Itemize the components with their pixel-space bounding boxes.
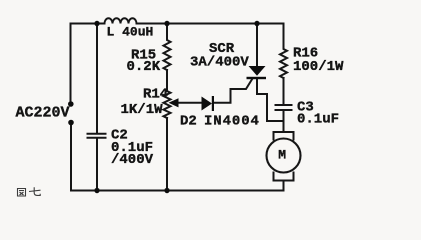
junction node top of SCR xyxy=(254,21,259,26)
capacitor C3 plates xyxy=(276,105,292,110)
rheostat R14 wiper arrow xyxy=(169,98,179,107)
resistor R16 100/1W with top corner xyxy=(280,24,287,79)
svg-text:/400V: /400V xyxy=(111,152,154,168)
junction node top of R15 xyxy=(164,21,169,26)
capacitor C2 branch lower wire xyxy=(96,139,98,191)
svg-text:D2: D2 xyxy=(180,114,197,130)
thyristor SCR triangle xyxy=(249,66,266,76)
wire R14 bottom to rail xyxy=(166,118,168,191)
capacitor C2 branch upper wire xyxy=(96,24,98,133)
node AC terminal upper xyxy=(68,101,74,107)
svg-text:IN4004: IN4004 xyxy=(204,114,260,130)
junction node bottom of C2 xyxy=(94,188,99,193)
wire motor to bottom rail xyxy=(283,181,285,191)
wire top rail left segment xyxy=(71,23,105,25)
svg-text:L 40uH: L 40uH xyxy=(107,24,154,39)
svg-text:M: M xyxy=(278,148,286,163)
wire top rail right segment xyxy=(137,23,284,25)
inductor L1 40uH xyxy=(105,18,137,23)
diode D2 cathode bar xyxy=(212,96,214,111)
wire D2 cathode to gate bend xyxy=(213,79,253,103)
wire between R15 and R14 xyxy=(166,70,168,91)
svg-text:0.1uF: 0.1uF xyxy=(297,112,339,128)
svg-text:3A/400V: 3A/400V xyxy=(190,55,249,71)
resistor R14 1K/1W rheostat body xyxy=(164,91,171,118)
svg-text:100/1W: 100/1W xyxy=(293,59,344,75)
motor M1 top brush bracket xyxy=(274,132,294,140)
wire R14 wiper to D2 xyxy=(176,102,202,104)
svg-text:1K/1W: 1K/1W xyxy=(121,102,164,118)
diode D2 triangle xyxy=(202,97,213,111)
motor M1 bottom brush bracket xyxy=(274,173,294,181)
svg-text:R14: R14 xyxy=(143,87,168,103)
wire C3 to motor node xyxy=(283,111,285,132)
svg-text:0.2K: 0.2K xyxy=(127,59,161,75)
caption 七 glyph xyxy=(29,187,41,195)
junction node top of C2 xyxy=(94,21,99,26)
wire left rail upper xyxy=(70,24,72,104)
thyristor SCR cathode bar xyxy=(247,77,267,79)
motor M1 body circle xyxy=(267,139,301,173)
wire bottom rail xyxy=(71,190,284,192)
resistor R15 0.2K xyxy=(164,24,171,71)
capacitor C2 plates xyxy=(88,134,106,138)
svg-text:AC220V: AC220V xyxy=(16,105,70,122)
junction node bottom of R14 xyxy=(164,188,169,193)
wire SCR anode drop xyxy=(256,24,258,67)
wire SCR cathode with jog to motor node xyxy=(257,79,284,121)
wire left rail lower xyxy=(70,123,72,191)
caption 图 glyph xyxy=(18,189,26,197)
node AC terminal lower xyxy=(68,120,74,126)
wire R16 to C3 xyxy=(283,78,285,104)
